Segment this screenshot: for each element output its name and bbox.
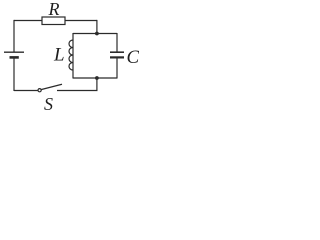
wire left side lower [13, 59, 15, 92]
wire resistor to top-right corner [65, 20, 97, 22]
wire top-left to resistor [14, 20, 42, 22]
wire inner top rail [73, 33, 117, 35]
battery short thick plate [10, 56, 19, 59]
switch S pivot circle [38, 89, 41, 92]
wire node B down to bottom rail [96, 78, 98, 91]
wire inductor branch top stub [72, 33, 74, 40]
inductor core line [72, 40, 74, 70]
wire left side upper [13, 20, 15, 52]
switch S blade [41, 84, 62, 89]
resistor R box [42, 17, 65, 25]
node B junction dot [95, 76, 99, 80]
wire top-right corner down to node A [96, 20, 98, 34]
wire capacitor branch bottom stub [116, 59, 118, 79]
svg-text:R: R [48, 0, 60, 19]
svg-text:L: L [53, 45, 65, 66]
capacitor C top plate [110, 51, 124, 53]
wire inductor branch bottom stub [72, 70, 74, 79]
wire bottom right segment [57, 90, 98, 92]
wire capacitor branch top stub [116, 33, 118, 52]
svg-text:C: C [127, 47, 140, 68]
wire bottom left segment [14, 90, 38, 92]
inductor L coil [69, 40, 73, 70]
battery long plate [4, 51, 24, 53]
node A junction dot [95, 32, 99, 36]
svg-text:S: S [44, 94, 53, 111]
wire inner bottom rail [73, 77, 117, 79]
capacitor C bottom plate [110, 56, 124, 58]
